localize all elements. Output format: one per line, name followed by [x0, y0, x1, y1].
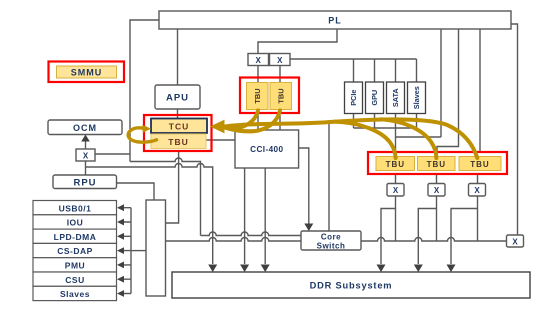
wire PL to APU — [177, 29, 179, 85]
svg-text:X: X — [393, 186, 399, 195]
box right X (far right) — [507, 235, 524, 247]
wire stack arrow stubs — [123, 208, 131, 294]
wire SATA drop to TBU1 step — [396, 114, 442, 153]
arrow into OCM — [81, 135, 90, 142]
box PMU — [33, 258, 117, 272]
box IOU — [33, 215, 117, 229]
svg-text:APU: APU — [166, 93, 189, 104]
wire PL right edge down to X — [511, 24, 518, 235]
arrow into DDR right 1 — [377, 265, 386, 273]
wire PL drop 2 with step to TBU2 — [437, 29, 459, 152]
wire upper bus with hops — [201, 232, 302, 235]
box CS-DAP — [33, 243, 117, 257]
box SATA — [387, 82, 405, 114]
gold trunk with branch to TBU right 3 — [225, 111, 477, 159]
box Slaves (right) — [408, 82, 426, 114]
svg-text:X: X — [512, 238, 518, 247]
svg-text:TBU: TBU — [386, 160, 405, 169]
svg-text:X: X — [474, 186, 480, 195]
box right X 1 — [387, 184, 404, 197]
wire middle TBUs to CCI-400 — [258, 110, 280, 131]
wire RPU to interconnect box — [117, 183, 155, 201]
svg-text:OCM: OCM — [73, 123, 97, 133]
gold arrowhead into TCU — [210, 120, 225, 134]
gold branch to TBU right 1 — [335, 122, 396, 158]
gold swirl loop at TCU left — [128, 128, 156, 142]
box DDR Subsystem — [172, 272, 530, 298]
yellow box TCU — [151, 119, 207, 134]
wire bus under IP boxes — [354, 114, 417, 129]
wire TBU to CCI-400 — [206, 139, 235, 141]
svg-text:TBU: TBU — [277, 88, 286, 103]
wire right TBUs to X boxes — [396, 174, 478, 184]
wire left stack arrow rail — [130, 208, 132, 294]
svg-text:TBU: TBU — [427, 160, 446, 169]
arrow into DDR right 3 — [447, 265, 456, 273]
svg-text:PCIe: PCIe — [349, 90, 358, 106]
svg-text:X: X — [256, 56, 262, 65]
wire X(OCM) to RPU — [85, 161, 87, 175]
wire core-switch to right X with hops — [361, 238, 507, 241]
yellow box TBU right 2 — [418, 157, 456, 171]
svg-text:TBU: TBU — [168, 137, 188, 147]
box X below OCM — [76, 149, 95, 161]
wire gold trunk to core switch — [328, 124, 330, 231]
svg-text:X: X — [277, 56, 283, 65]
svg-text:Slaves: Slaves — [60, 289, 90, 299]
yellow box TBU middle-right — [270, 83, 292, 110]
arrow into DDR right 2 — [414, 265, 423, 273]
gold swirl arrowhead — [142, 125, 151, 133]
svg-text:Slaves: Slaves — [412, 86, 421, 109]
yellow box TBU right 3 — [459, 157, 501, 171]
arrow into DDR from CCI drop 2 — [261, 265, 270, 273]
wire PL left to upper horizontal — [130, 20, 159, 162]
svg-text:IOU: IOU — [67, 218, 84, 228]
wire right DDR steps — [381, 209, 478, 265]
arrow into Core Switch from CCI — [304, 224, 313, 232]
wire lower bus with hops — [166, 238, 302, 241]
svg-text:TBU: TBU — [253, 88, 262, 103]
wire OCM arrow stem — [85, 140, 87, 149]
svg-text:PMU: PMU — [65, 261, 85, 271]
box PCIe — [345, 82, 363, 114]
gold curve middle TBU left to TCU — [225, 111, 258, 129]
box right X 2 — [428, 184, 445, 197]
wire right X boxes down to bus — [396, 196, 478, 241]
wire X pair to middle TBUs — [258, 66, 280, 84]
svg-text:TBU: TBU — [470, 160, 489, 169]
svg-text:PL: PL — [328, 16, 342, 26]
svg-text:SMMU: SMMU — [71, 68, 103, 78]
red box SMMU — [49, 62, 125, 83]
box Slaves — [33, 286, 117, 300]
wire APU to TCU — [177, 109, 179, 119]
box USB0/1 — [33, 201, 117, 215]
arrows into left stack — [117, 204, 124, 297]
wire lower horizontal with hops — [86, 164, 213, 265]
box GPU — [366, 82, 384, 114]
wire PL drop 1 — [440, 29, 442, 137]
wire CCI-400 to core switch arrow stem — [299, 148, 309, 230]
box X pair right — [270, 54, 291, 66]
box right X 3 — [469, 184, 486, 197]
yellow box TBU middle-left — [247, 83, 269, 110]
box CSU — [33, 272, 117, 286]
red box right TBU group — [368, 152, 507, 174]
svg-text:X: X — [434, 186, 440, 195]
box LPD-DMA — [33, 229, 117, 243]
box PL — [159, 11, 511, 29]
wire drops to PCIe GPU SATA Slaves — [354, 59, 417, 82]
svg-text:DDR Subsystem: DDR Subsystem — [310, 281, 393, 291]
wire PL step to X pair — [258, 29, 337, 54]
svg-text:RPU: RPU — [73, 178, 96, 189]
arrow into DDR from lower horizontal — [208, 265, 217, 273]
box X pair left — [248, 54, 269, 66]
svg-text:X: X — [83, 152, 89, 161]
box LPD interconnect (tall narrow) — [146, 200, 166, 296]
wire CCI-400 drop 2 — [264, 168, 266, 264]
yellow box TBU right 1 — [376, 157, 415, 171]
box CCI-400 — [235, 130, 299, 168]
svg-text:SATA: SATA — [391, 88, 400, 108]
arrow into DDR from CCI drop 1 — [240, 265, 249, 273]
red box middle TBU pair — [240, 78, 299, 114]
gold curve middle TBU right to TCU — [226, 111, 280, 132]
svg-text:CSU: CSU — [65, 275, 84, 285]
gold branch to TBU right 2 — [381, 119, 436, 158]
svg-text:Switch: Switch — [317, 242, 346, 251]
wire CCI-400 drop 1 — [244, 168, 246, 264]
svg-text:TCU: TCU — [169, 122, 189, 132]
yellow box TBU (left) — [151, 134, 206, 149]
svg-text:Core: Core — [321, 233, 341, 242]
svg-text:GPU: GPU — [370, 90, 379, 106]
wire rail to interconnect — [131, 250, 146, 252]
wire X(OCM) to PL-left vertical — [95, 153, 130, 155]
box APU — [155, 85, 200, 109]
box OCM — [48, 120, 122, 135]
yellow box SMMU — [57, 66, 117, 78]
svg-text:CS-DAP: CS-DAP — [57, 246, 93, 256]
wire upper horizontal with hop — [130, 158, 201, 235]
wire TCU-TBU block down to interconnect — [166, 151, 179, 223]
box RPU — [53, 175, 117, 189]
wire X pair right horizontal — [290, 58, 417, 60]
svg-text:CCI-400: CCI-400 — [250, 145, 283, 154]
box Core Switch — [301, 231, 361, 251]
red box TCU-TBU — [144, 115, 212, 151]
svg-text:USB0/1: USB0/1 — [59, 203, 92, 213]
svg-text:LPD-DMA: LPD-DMA — [54, 232, 97, 242]
wire PL drop 3 to TBU3 — [479, 29, 481, 152]
